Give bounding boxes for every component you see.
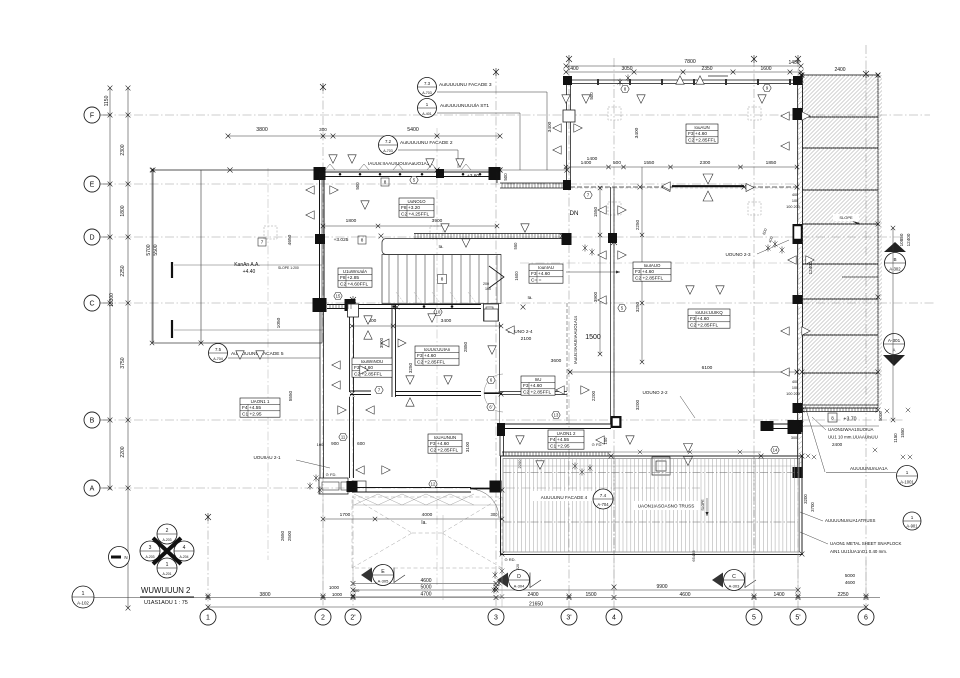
wall thin x501 (499, 322, 501, 392)
svg-text:4600: 4600 (845, 580, 856, 585)
outline column 348 (348, 304, 359, 317)
sill block 2 (352, 481, 366, 492)
svg-text:4650: 4650 (287, 234, 293, 245)
column x612 (608, 233, 617, 243)
star cluster2 (583, 245, 588, 252)
svg-text:Ia.: Ia. (421, 520, 427, 526)
svg-text:2500: 2500 (287, 530, 292, 541)
outline column 484 (484, 304, 499, 321)
dim tick (391, 324, 395, 328)
svg-text:14: 14 (773, 448, 778, 453)
wall x393 (391, 305, 393, 397)
dim line bottom4 (208, 606, 866, 608)
dim tick (350, 324, 354, 328)
dim tick (499, 324, 503, 328)
svg-text:100: 100 (317, 442, 324, 447)
dim tick (738, 165, 742, 169)
callout circle 1 A-401 (418, 99, 437, 118)
column L-topleft (314, 167, 326, 180)
svg-text:400: 400 (792, 193, 798, 197)
svg-text:UAON1 1: UAON1 1 (251, 399, 270, 404)
svg-text:3900: 3900 (593, 291, 598, 302)
svg-text:C2 +2.85FFL: C2 +2.85FFL (523, 390, 551, 396)
svg-text:F3 +4.60: F3 +4.60 (430, 441, 449, 447)
svg-text:A-203: A-203 (162, 538, 171, 542)
dim tick (752, 595, 757, 600)
wall hall x567 (566, 303, 568, 424)
column right wall (793, 108, 803, 120)
dashed column outline (430, 226, 443, 239)
svg-text:1800: 1800 (346, 218, 357, 224)
dim tick (435, 134, 440, 139)
column LL bottom (347, 481, 358, 492)
dashed column outline (264, 226, 277, 239)
wall TR-top (566, 79, 801, 81)
grid line row A (103, 487, 700, 489)
canopy x cluster (806, 454, 810, 458)
hex 7b (375, 386, 383, 393)
svg-text:SLOPE 1:200: SLOPE 1:200 (278, 266, 299, 270)
dim tick (321, 595, 326, 600)
grid line col 3 (495, 70, 497, 608)
centerline y263 right wing (520, 262, 798, 264)
truss facade label (533, 491, 595, 501)
grid line row B (103, 419, 905, 421)
grid line row F (103, 114, 930, 116)
dim chain x642 (641, 167, 643, 362)
svg-text:AIN1 UU1lUA1nO1 0.40 mm.: AIN1 UU1lUA1nO1 0.40 mm. (830, 549, 887, 554)
svg-text:21650: 21650 (529, 602, 543, 608)
label box roof1 (240, 398, 280, 418)
svg-text:3400: 3400 (634, 127, 640, 138)
dim tick (108, 235, 113, 240)
slope strip divider part (842, 276, 878, 278)
envelope line top-left (153, 169, 567, 171)
grid top star (751, 55, 757, 63)
canopy outline (804, 425, 879, 427)
svg-text:UAON1 2: UAON1 2 (557, 431, 576, 436)
grid bubble F (84, 107, 100, 123)
door leaf bottom (470, 488, 499, 490)
dim tick (351, 581, 356, 586)
dim line bottom3 (353, 596, 502, 598)
svg-text:900: 900 (331, 441, 339, 446)
dim tick (108, 86, 113, 91)
wall x501 lower (499, 424, 501, 456)
column L-topright (489, 167, 501, 180)
svg-text:220: 220 (516, 564, 520, 570)
slope strip divider (803, 147, 879, 149)
dim tick (598, 186, 602, 190)
svg-text:2100: 2100 (521, 336, 532, 342)
svg-text:3600: 3600 (551, 358, 562, 364)
svg-text:1: 1 (206, 615, 210, 622)
svg-text:4: 4 (612, 615, 616, 622)
callout line3 (398, 149, 458, 151)
svg-text:3200: 3200 (803, 494, 808, 504)
balustrade upper (500, 182, 567, 184)
column right wall (793, 467, 803, 478)
svg-text:⊙ FD.: ⊙ FD. (326, 472, 337, 477)
dim tick (568, 370, 572, 374)
hex 7 dn (584, 191, 592, 198)
dim tick (500, 517, 504, 521)
svg-text:6': 6' (489, 405, 492, 410)
svg-text:1550: 1550 (644, 160, 655, 166)
svg-text:10850: 10850 (899, 233, 904, 246)
svg-text:1: 1 (911, 515, 914, 520)
dim tick (799, 73, 804, 78)
dashed column outline (608, 107, 621, 120)
svg-text:500: 500 (355, 182, 360, 190)
label box hall (529, 264, 563, 284)
slope text (833, 214, 859, 221)
truss band vline 754 (753, 456, 755, 555)
dim line top row2 (566, 71, 801, 73)
label box sanitary (428, 434, 462, 454)
slope strip divider (803, 372, 879, 374)
dim tick (494, 581, 499, 586)
svg-text:400: 400 (792, 380, 798, 384)
partition y187b (744, 186, 797, 188)
dim tick (126, 86, 131, 91)
svg-text:F3 +4.60: F3 +4.60 (635, 269, 654, 275)
column L-left3 (313, 298, 327, 312)
svg-text:C: C (89, 301, 94, 308)
brace zigzag (354, 494, 474, 505)
grid bubble C (84, 295, 100, 311)
svg-text:A-102: A-102 (77, 601, 89, 606)
svg-text:A-1001: A-1001 (900, 479, 914, 484)
balustrade small (330, 304, 351, 309)
dim chain left inner line (127, 88, 129, 608)
grid bubble 6 (858, 609, 874, 625)
svg-text:C2 +2.85FFL: C2 +2.85FFL (688, 138, 716, 144)
svg-text:C2 +2.85FFL: C2 +2.85FFL (690, 323, 718, 329)
dim tick (640, 233, 644, 237)
svg-text:3: 3 (149, 545, 152, 551)
wall LL stub (350, 390, 371, 392)
svg-text:5500: 5500 (153, 244, 159, 255)
slope strip divider (803, 116, 879, 118)
svg-text:3400: 3400 (441, 318, 452, 324)
dim tick (564, 64, 569, 69)
wall post (661, 79, 663, 85)
svg-text:2400: 2400 (834, 67, 845, 73)
svg-text:65435: 65435 (691, 550, 696, 562)
label box meeting-l (688, 309, 730, 329)
column y424 m (611, 416, 622, 428)
dim tick (640, 301, 644, 305)
section marker A (884, 334, 905, 355)
svg-text:3100: 3100 (465, 441, 470, 452)
column right wall (793, 420, 803, 432)
opening tick (638, 450, 642, 454)
svg-text:100: 100 (792, 386, 798, 390)
svg-text:2250: 2250 (635, 219, 640, 230)
svg-text:C2 +2.85FFL: C2 +2.85FFL (635, 276, 663, 282)
dim line row2 (353, 589, 798, 591)
dim tick (799, 70, 804, 75)
roof slab inner line (200, 170, 202, 343)
dim line top 7800 (566, 65, 801, 67)
svg-text:4600: 4600 (679, 592, 690, 598)
column TR-topleft (563, 76, 572, 85)
grid top star (350, 296, 356, 304)
north circle (109, 547, 130, 568)
dim line y519 (323, 518, 502, 520)
dim tick (495, 224, 499, 228)
svg-text:3250: 3250 (635, 301, 640, 312)
svg-text:7.2: 7.2 (385, 139, 392, 144)
svg-text:UAON1 METAL SHEET SNAPLOCK: UAON1 METAL SHEET SNAPLOCK (830, 541, 901, 546)
hex 11 (339, 433, 347, 440)
svg-text:KanAn A.A.: KanAn A.A. (234, 262, 260, 268)
wall LL-outer (319, 310, 321, 478)
svg-text:A-901: A-901 (906, 524, 918, 529)
svg-text:7800: 7800 (684, 59, 696, 65)
terrace hip lines (352, 497, 502, 568)
svg-text:5': 5' (795, 615, 800, 622)
dim tick (632, 70, 637, 75)
svg-text:F8 +3.20: F8 +3.20 (401, 205, 420, 211)
elevation marker C2 (712, 573, 723, 588)
svg-text:12400: 12400 (808, 261, 813, 274)
roof slab outline (153, 170, 322, 343)
dim tick (864, 595, 869, 600)
svg-text:3800: 3800 (256, 127, 268, 133)
grid line row D (103, 236, 905, 238)
dim tick (108, 418, 113, 423)
star cluster5 (314, 475, 319, 482)
envelope tick (227, 167, 232, 172)
svg-text:12300: 12300 (109, 293, 115, 307)
column TR-left2 (562, 233, 572, 245)
dim tick (494, 595, 499, 600)
wall post (725, 79, 727, 85)
dim tick (206, 605, 211, 610)
svg-text:7: 7 (261, 240, 264, 245)
callout circle 7.5 A-704 (209, 344, 228, 363)
roof slab stub wall 1 (171, 262, 173, 278)
grid line col 5 (753, 58, 755, 608)
column right wall (793, 295, 803, 304)
svg-text:IoUAUNUN: IoUAUNUN (434, 435, 456, 440)
envelope tick (434, 167, 439, 172)
kansad truss leader (800, 512, 823, 521)
svg-text:5000: 5000 (845, 573, 856, 578)
tick r2a (351, 588, 356, 593)
svg-text:UuNO1O: UuNO1O (407, 199, 426, 204)
hex 12 (429, 480, 437, 487)
dim line y326 (352, 325, 501, 327)
svg-text:A-204: A-204 (179, 555, 188, 559)
wall room partition h (395, 391, 481, 393)
svg-text:3400: 3400 (547, 121, 553, 132)
svg-text:IounIAU: IounIAU (538, 265, 554, 270)
hex 6p (487, 403, 495, 410)
keyplan circle right (174, 541, 194, 561)
wall TR-left (566, 84, 568, 188)
title circle 1 A-102 (72, 586, 94, 608)
opening tick (688, 450, 692, 454)
grid line col 6 (865, 45, 867, 608)
svg-text:600: 600 (357, 441, 365, 446)
svg-text:IoUUs:UUIAn: IoUUs:UUIAn (424, 347, 451, 352)
svg-text:IouIAUO: IouIAUO (644, 263, 661, 268)
svg-text:+3.025: +3.025 (334, 237, 349, 243)
grid bubble A (84, 480, 100, 496)
truss band border (501, 456, 803, 555)
svg-text:SLOPE: SLOPE (839, 215, 853, 220)
svg-text:6100: 6100 (702, 365, 713, 371)
svg-text:15: 15 (336, 294, 341, 299)
svg-text:2650: 2650 (280, 530, 285, 541)
svg-text:1400: 1400 (587, 156, 598, 162)
wall y392 right (500, 391, 567, 393)
dim tick (126, 301, 131, 306)
grid bubble E (84, 176, 100, 192)
svg-text:E: E (90, 182, 95, 189)
grid top star (566, 55, 572, 63)
svg-text:F3 +4.60: F3 +4.60 (531, 271, 550, 277)
svg-text:3: 3 (494, 615, 498, 622)
grid top star (493, 68, 499, 76)
svg-text:1550: 1550 (900, 428, 905, 438)
dim tick (226, 134, 231, 139)
hex 14 (771, 446, 779, 453)
hex 5b (618, 304, 626, 311)
svg-text:100 200: 100 200 (786, 392, 800, 396)
roof slab stub wall 2 (171, 320, 173, 338)
wall TR-right (797, 84, 799, 478)
svg-text:3900: 3900 (432, 218, 443, 224)
svg-text:F: F (90, 113, 94, 120)
stair balustrade band (414, 233, 562, 235)
svg-text:D: D (517, 574, 521, 580)
column y424 l (497, 423, 505, 436)
svg-text:IouWnNOU: IouWnNOU (361, 359, 383, 364)
terrace outline (352, 497, 502, 568)
grid top star (611, 238, 617, 246)
keyplan circle top (157, 524, 177, 544)
grid bubble 4 (606, 609, 622, 625)
dim tick (108, 486, 113, 491)
callout underline (228, 357, 320, 359)
svg-text:A-401: A-401 (422, 112, 432, 116)
svg-text:2200: 2200 (120, 446, 126, 457)
hex 13 (552, 411, 560, 418)
svg-text:200: 200 (483, 282, 489, 286)
keyplan circle left (140, 541, 160, 561)
svg-text:D: D (89, 235, 94, 242)
grid line col 2 (322, 85, 324, 608)
dim tick (331, 134, 336, 139)
svg-text:UOUNO 2-2: UOUNO 2-2 (642, 390, 667, 395)
svg-text:2850: 2850 (463, 341, 468, 352)
dim line 5700 (151, 170, 153, 343)
metal leader (800, 532, 828, 544)
svg-text:2350: 2350 (701, 66, 712, 72)
svg-text:AuIUUUUNUUUlA ST1: AuIUUUUNUUUlA ST1 (440, 103, 489, 109)
svg-text:Ia.: Ia. (438, 244, 443, 249)
svg-text:1: 1 (166, 562, 169, 568)
balustrade y454 (502, 451, 611, 453)
dim tick (799, 64, 804, 69)
grid bubble 3' (561, 609, 577, 625)
slope strip divider (803, 189, 879, 191)
svg-text:F3 +4.60: F3 +4.60 (417, 353, 436, 359)
grid bubble 3 (488, 609, 504, 625)
label box foyer (521, 376, 555, 396)
svg-text:C2 +2.85FFL: C2 +2.85FFL (417, 360, 445, 366)
svg-text:UOUNO 2-3: UOUNO 2-3 (725, 252, 750, 257)
svg-text:F4 +4.55: F4 +4.55 (550, 437, 569, 443)
title underline (140, 596, 194, 598)
wall LL-left2 (349, 397, 351, 478)
canopy leader (812, 417, 826, 430)
dim tick (598, 352, 602, 356)
keyplan circle bottom (157, 558, 177, 578)
svg-text:1400: 1400 (567, 66, 578, 72)
grid bubble 2 (315, 609, 331, 625)
witness line (322, 497, 324, 596)
dim line y167 (566, 166, 797, 168)
svg-text:8: 8 (384, 180, 387, 185)
grid bubble 5' (790, 609, 806, 625)
wall y424 b (761, 423, 801, 425)
svg-text:300: 300 (319, 127, 327, 132)
dim tick (126, 418, 131, 423)
outline column 484b (484, 309, 498, 321)
column y424 r2 (788, 420, 802, 434)
svg-text:7.3: 7.3 (424, 81, 431, 86)
svg-text:UAON1IASOASNO TRUSS: UAON1IASOASNO TRUSS (638, 504, 695, 509)
svg-text:300: 300 (491, 512, 499, 517)
dim tick (564, 165, 568, 169)
truss band hatch (506, 459, 799, 552)
svg-text:1000: 1000 (332, 592, 343, 597)
svg-text:A-305: A-305 (378, 578, 389, 583)
column TR-topright (793, 76, 802, 85)
centerline y188 right wing (570, 187, 795, 189)
grid bubble 2' (345, 609, 361, 625)
slope strip divider (803, 334, 879, 336)
triangle pair x393 (381, 339, 389, 347)
dim tick (108, 113, 113, 118)
svg-text:500: 500 (613, 160, 621, 166)
hex 10 (434, 308, 442, 315)
understair dashes (396, 292, 476, 303)
svg-text:1150: 1150 (893, 433, 898, 443)
dim tick (351, 594, 355, 598)
svg-text:11: 11 (341, 435, 346, 440)
short bar above wall (708, 75, 728, 77)
witness line (352, 570, 354, 600)
dim line top 2400 (801, 74, 878, 76)
elevation marker D2 (497, 573, 508, 588)
svg-text:UOUIIAU 2-1: UOUIIAU 2-1 (253, 455, 281, 460)
dim line y226 (323, 225, 497, 227)
dashed column outline (608, 202, 621, 215)
wall dots W5 (339, 173, 342, 176)
grid line col 1 (207, 515, 209, 608)
svg-text:UAON1IWAA1SUOIUA: UAON1IWAA1SUOIUA (828, 427, 874, 432)
dim tick (498, 134, 503, 139)
tick r2c (796, 588, 801, 593)
svg-text:3700: 3700 (810, 502, 815, 512)
svg-text:6: 6 (864, 615, 868, 622)
